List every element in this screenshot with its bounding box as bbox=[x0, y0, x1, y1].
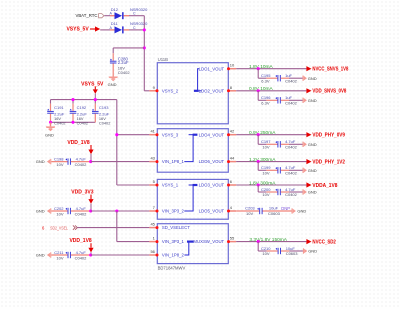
pin 41 VSYS_3 bbox=[149, 129, 178, 138]
svg-text:10V: 10V bbox=[262, 171, 269, 176]
pin 10 LDO1_VOUT bbox=[199, 63, 237, 72]
svg-text:VSYS_5V: VSYS_5V bbox=[81, 82, 104, 88]
wire D12 cathode to node VSYS_5V trunk bbox=[124, 15, 145, 17]
port VBAT_RTC bbox=[75, 13, 104, 18]
capacitor C211 4.7uF 10V C0402 bbox=[51, 250, 90, 260]
svg-text:6.3V: 6.3V bbox=[261, 101, 270, 106]
svg-text:VSYS_1: VSYS_1 bbox=[162, 183, 179, 188]
svg-text:LDO1_VOUT: LDO1_VOUT bbox=[199, 66, 225, 71]
svg-text:C202: C202 bbox=[54, 206, 64, 211]
wire to IC pin bbox=[91, 210, 150, 212]
svg-text:VDD_1V8: VDD_1V8 bbox=[67, 140, 89, 146]
wire VSYS_5V to D11 anode bbox=[100, 29, 114, 31]
svg-text:2.2uF: 2.2uF bbox=[118, 60, 129, 65]
power flag VDD_1V8 bbox=[67, 140, 93, 162]
svg-text:42: 42 bbox=[230, 129, 235, 134]
ground flag (right) bbox=[303, 76, 317, 81]
junction trunk/C280 bbox=[143, 46, 146, 49]
svg-text:GND: GND bbox=[36, 159, 45, 164]
wire VBAT_RTC to D12 anode bbox=[104, 15, 114, 17]
junction cap branch bbox=[257, 133, 260, 136]
junction power/cap bbox=[89, 209, 92, 212]
svg-text:VDD_PHY_0V9: VDD_PHY_0V9 bbox=[312, 133, 345, 139]
svg-text:GND: GND bbox=[308, 249, 317, 254]
svg-text:LDO6_VOUT: LDO6_VOUT bbox=[199, 159, 225, 164]
ground flag (left) bbox=[36, 252, 52, 257]
svg-text:4.7uF: 4.7uF bbox=[76, 157, 87, 162]
wire C280 branch bbox=[113, 47, 144, 49]
ground flag (pin 4 row) bbox=[292, 208, 307, 213]
wire VSYS_5V trunk to VSYS_3 / VSYS_1 bbox=[117, 100, 150, 185]
op-amp U11B (PMIC BD71847MWV) section boxes bbox=[157, 57, 228, 270]
pin 6 LDO3_VOUT bbox=[199, 179, 237, 188]
svg-text:C0402: C0402 bbox=[99, 120, 110, 125]
capacitor C199 4.7uF 10V C0402 bbox=[258, 162, 302, 176]
svg-text:55: 55 bbox=[230, 236, 235, 241]
wire D11 cathode to trunk bbox=[124, 29, 145, 31]
net SD2_VSEL off-page connector bbox=[42, 225, 77, 230]
power flag VDD_3V3 bbox=[71, 190, 93, 211]
junction C210 branch bbox=[257, 240, 260, 243]
wire NVCC_SNVS_1V8 row bbox=[236, 64, 306, 70]
svg-text:1.2V 300mA: 1.2V 300mA bbox=[249, 157, 276, 163]
svg-text:10V: 10V bbox=[246, 211, 253, 216]
svg-text:6.3V: 6.3V bbox=[261, 78, 270, 83]
svg-text:GND: GND bbox=[297, 209, 306, 214]
svg-text:C0603: C0603 bbox=[286, 251, 299, 256]
svg-text:VIN_1P8_2: VIN_1P8_2 bbox=[162, 253, 185, 258]
ground flag (right) bbox=[303, 189, 317, 194]
svg-text:VDD_SNVS_0V8: VDD_SNVS_0V8 bbox=[312, 89, 346, 95]
svg-text:1uF: 1uF bbox=[285, 73, 292, 78]
svg-text:VIN_1P8_1: VIN_1P8_1 bbox=[162, 159, 185, 164]
pin 44 LDO6_VOUT bbox=[199, 156, 237, 165]
svg-text:VDDA_1V8: VDDA_1V8 bbox=[312, 183, 337, 189]
wire to IC pin bbox=[91, 161, 150, 163]
internal tie VIN_1P8_1-LDO4 bbox=[184, 134, 197, 162]
svg-text:MUXSW_VOUT: MUXSW_VOUT bbox=[193, 239, 224, 244]
svg-text:10V: 10V bbox=[56, 162, 63, 167]
svg-text:C0402: C0402 bbox=[77, 120, 88, 125]
pin 56 VIN_1P8_2 bbox=[149, 249, 184, 258]
capacitor C191 2.2uF 16V C0402 bbox=[47, 100, 65, 126]
svg-text:C193: C193 bbox=[99, 105, 109, 110]
svg-text:4.7uF: 4.7uF bbox=[285, 165, 296, 170]
internal tie LDO1-LDO2 bbox=[194, 69, 202, 92]
ground flag (right) bbox=[303, 98, 317, 103]
capacitor C210 10uF 10V C0603 bbox=[258, 242, 303, 257]
capacitor C196 1uF 6.3V C0402 bbox=[258, 91, 302, 106]
junction trunk/D11 bbox=[143, 28, 146, 31]
diode D12 NSR0320 bbox=[110, 7, 149, 19]
svg-text:GND: GND bbox=[308, 142, 317, 147]
svg-text:VIN_3P3_2: VIN_3P3_2 bbox=[162, 209, 185, 214]
capacitor C193 2.2uF 16V C0402 bbox=[92, 100, 110, 126]
svg-text:GND: GND bbox=[36, 209, 45, 214]
svg-text:C0402: C0402 bbox=[285, 145, 298, 150]
svg-text:VIN_3P3_1: VIN_3P3_1 bbox=[162, 239, 185, 244]
capacitor C280 2.2uF 16V C0402 bbox=[110, 48, 130, 77]
svg-text:10V: 10V bbox=[262, 251, 269, 256]
junction cap branch bbox=[257, 160, 260, 163]
svg-text:U11B: U11B bbox=[158, 57, 169, 62]
svg-text:LDO2_VOUT: LDO2_VOUT bbox=[199, 88, 225, 93]
junction cap branch bbox=[257, 89, 260, 92]
junction trunk/VSYS_3 bbox=[115, 133, 118, 136]
svg-text:56: 56 bbox=[150, 249, 155, 254]
svg-text:C0603: C0603 bbox=[268, 211, 281, 216]
pin 9 VSYS_2 bbox=[149, 85, 178, 94]
svg-text:C0402: C0402 bbox=[285, 101, 298, 106]
svg-text:VSYS_5V: VSYS_5V bbox=[66, 27, 89, 33]
capacitor C197 4.7uF 10V C0402 bbox=[258, 135, 302, 150]
svg-text:GND: GND bbox=[308, 168, 317, 173]
svg-text:LDO3_VOUT: LDO3_VOUT bbox=[199, 183, 225, 188]
svg-text:4.7uF: 4.7uF bbox=[76, 250, 87, 255]
power flag VSYS_5V (top) bbox=[66, 26, 100, 32]
svg-text:GND: GND bbox=[108, 82, 117, 87]
svg-text:DNP: DNP bbox=[281, 206, 290, 211]
junction rail/C192 bbox=[71, 121, 74, 124]
capacitor C200 4.7uF 10V C0402 bbox=[258, 185, 302, 197]
wire VDD_3V3 to VIN_3P3_1 bbox=[117, 211, 150, 242]
svg-text:44: 44 bbox=[230, 156, 235, 161]
svg-text:C195: C195 bbox=[261, 73, 271, 78]
svg-text:LDO4_VOUT: LDO4_VOUT bbox=[199, 132, 225, 137]
capacitor C203 10uF 10V C0603 DNP (pin 4 row) bbox=[236, 206, 291, 216]
ground flag (right) bbox=[303, 142, 317, 147]
svg-text:LDO5_VOUT: LDO5_VOUT bbox=[199, 209, 225, 214]
junction rail/C191/GND bbox=[49, 121, 52, 124]
svg-text:4.7uF: 4.7uF bbox=[285, 139, 296, 144]
svg-text:10V: 10V bbox=[262, 145, 269, 150]
wire cap bank bottom rail bbox=[51, 121, 96, 123]
svg-text:VDD_1V8: VDD_1V8 bbox=[69, 238, 91, 244]
capacitor C198 4.7uF 10V C0402 bbox=[51, 157, 90, 167]
pin 45 SD_VSELECT bbox=[149, 222, 190, 231]
ground flag (right) bbox=[303, 168, 317, 173]
wire VDDA_1V8 row bbox=[236, 180, 306, 186]
svg-text:NVCC_SD2: NVCC_SD2 bbox=[312, 239, 336, 245]
svg-text:0.8V 10mA: 0.8V 10mA bbox=[249, 86, 274, 92]
svg-text:GND: GND bbox=[308, 76, 317, 81]
svg-text:C196: C196 bbox=[261, 95, 271, 100]
ground flag (pin 55 row) bbox=[303, 248, 317, 253]
ground below C280 bbox=[108, 77, 118, 88]
svg-text:GND: GND bbox=[308, 190, 317, 195]
svg-text:VBAT_RTC: VBAT_RTC bbox=[75, 13, 97, 18]
svg-text:45: 45 bbox=[150, 222, 155, 227]
ground below cap bank bbox=[45, 122, 55, 137]
junction power/cap bbox=[89, 160, 92, 163]
svg-text:41: 41 bbox=[150, 129, 155, 134]
net NVCC_SD2 (pin 55) bbox=[236, 237, 306, 243]
svg-text:3.3V/1.8V 150mA: 3.3V/1.8V 150mA bbox=[249, 237, 287, 243]
power flag VDD_PHY_0V9 bbox=[306, 132, 345, 138]
power flag NVCC_SD2 bbox=[306, 239, 336, 245]
svg-text:C200: C200 bbox=[261, 187, 271, 192]
svg-text:10V: 10V bbox=[56, 211, 63, 216]
internal tie VIN_3P3_2-LDO3 bbox=[184, 184, 197, 211]
svg-text:NVCC_SNVS_1V8: NVCC_SNVS_1V8 bbox=[312, 67, 348, 73]
svg-text:10V: 10V bbox=[56, 255, 63, 260]
svg-text:1uF: 1uF bbox=[285, 95, 292, 100]
svg-text:GND: GND bbox=[308, 98, 317, 103]
svg-text:43: 43 bbox=[150, 156, 155, 161]
internal tie VIN_1P8_2-MUXSW bbox=[184, 241, 193, 256]
wire VDD_SNVS_0V8 row bbox=[236, 86, 306, 92]
svg-text:C198: C198 bbox=[54, 157, 64, 162]
svg-text:C210: C210 bbox=[261, 246, 271, 251]
svg-text:C0402: C0402 bbox=[54, 120, 65, 125]
svg-text:C191: C191 bbox=[54, 105, 64, 110]
pin 1 VIN_3P3_1 bbox=[149, 236, 184, 245]
svg-text:C0402: C0402 bbox=[75, 162, 88, 167]
svg-text:C0402: C0402 bbox=[285, 171, 298, 176]
svg-text:C0402: C0402 bbox=[285, 192, 298, 197]
svg-text:10V: 10V bbox=[262, 192, 269, 197]
junction power/cap bbox=[89, 253, 92, 256]
svg-text:4.7uF: 4.7uF bbox=[76, 206, 87, 211]
capacitor C202 4.7uF 10V C0402 bbox=[51, 206, 90, 216]
power flag VDD_SNVS_0V8 bbox=[306, 88, 346, 94]
svg-text:C0402: C0402 bbox=[118, 70, 131, 75]
svg-text:C199: C199 bbox=[261, 165, 271, 170]
pin 8 LDO2_VOUT bbox=[199, 85, 237, 94]
svg-text:C: C bbox=[133, 26, 136, 30]
wire VDD_PHY_1V2 row bbox=[236, 157, 306, 163]
wire VSYS_5V bus (cap bank top) bbox=[51, 99, 117, 101]
svg-text:SD2_VSEL: SD2_VSEL bbox=[50, 225, 68, 230]
svg-text:D12: D12 bbox=[111, 7, 119, 12]
wire to IC pin bbox=[91, 254, 150, 256]
power flag VDD_1V8 bbox=[69, 238, 93, 255]
svg-text:BD71847MWV: BD71847MWV bbox=[158, 265, 186, 270]
svg-text:C192: C192 bbox=[77, 105, 87, 110]
wire VDD_PHY_0V9 row bbox=[236, 130, 306, 136]
capacitor C192 2.2uF 16V C0402 bbox=[70, 100, 88, 126]
power flag VDD_PHY_1V2 bbox=[306, 159, 345, 165]
pin 42 LDO4_VOUT bbox=[199, 129, 237, 138]
svg-text:4.7uF: 4.7uF bbox=[285, 187, 296, 192]
junction bus/C193/VSYS_5V bbox=[94, 98, 97, 101]
svg-text:C0402: C0402 bbox=[285, 78, 298, 83]
svg-text:SD_VSELECT: SD_VSELECT bbox=[162, 225, 190, 230]
diode D11 NSR0320 bbox=[110, 21, 149, 33]
svg-text:10: 10 bbox=[230, 63, 235, 68]
power flag VDDA_1V8 bbox=[306, 182, 337, 188]
pin 5 VSYS_1 bbox=[149, 179, 178, 188]
ground flag (left) bbox=[36, 159, 52, 164]
svg-text:C197: C197 bbox=[261, 139, 271, 144]
pin 7 VIN_3P3_2 bbox=[149, 205, 184, 214]
ground flag (left) bbox=[36, 208, 52, 213]
junction cap branch bbox=[257, 183, 260, 186]
svg-text:VSYS_2: VSYS_2 bbox=[162, 88, 179, 93]
svg-text:VDD_3V3: VDD_3V3 bbox=[71, 190, 93, 196]
svg-text:C0402: C0402 bbox=[75, 255, 88, 260]
junction cap branch bbox=[257, 67, 260, 70]
capacitor C195 1uF 6.3V C0402 bbox=[258, 69, 302, 84]
svg-text:1.8V 10mA: 1.8V 10mA bbox=[249, 64, 274, 70]
wire VSYS_5V vertical trunk to pin 9 bbox=[144, 16, 149, 91]
power flag NVCC_SNVS_1V8 bbox=[306, 66, 348, 72]
junction VDD_3V3 branch to pin 1 bbox=[115, 209, 118, 212]
junction bus/C192 bbox=[71, 98, 74, 101]
svg-text:10uF: 10uF bbox=[286, 246, 296, 251]
pin 55 MUXSW_VOUT bbox=[193, 236, 236, 245]
svg-text:1.8V 300mA: 1.8V 300mA bbox=[249, 180, 276, 186]
svg-text:0.9V 250mA: 0.9V 250mA bbox=[249, 130, 276, 136]
svg-text:C0402: C0402 bbox=[75, 211, 88, 216]
svg-text:VSYS_3: VSYS_3 bbox=[162, 132, 179, 137]
svg-text:VDD_PHY_1V2: VDD_PHY_1V2 bbox=[312, 159, 345, 165]
pin 43 VIN_1P8_1 bbox=[149, 156, 184, 165]
svg-text:GND: GND bbox=[45, 133, 54, 138]
svg-text:C: C bbox=[133, 12, 136, 16]
wire SD2_VSEL to pin 45 bbox=[77, 227, 149, 229]
pin 4 LDO5_VOUT bbox=[199, 205, 237, 214]
svg-text:C211: C211 bbox=[54, 250, 64, 255]
power flag VSYS_5V (cap bank) bbox=[81, 82, 104, 100]
svg-text:GND: GND bbox=[36, 253, 45, 258]
